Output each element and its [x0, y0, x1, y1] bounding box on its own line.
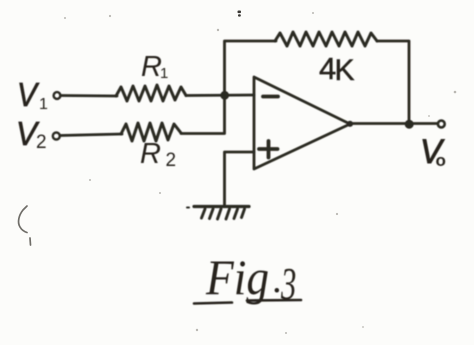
op-amp non-inverting pin label plus	[259, 141, 278, 158]
caption Fig.3	[194, 249, 301, 310]
svg-text:Fig: Fig	[205, 249, 269, 305]
svg-text:V: V	[17, 76, 40, 113]
label R2	[140, 138, 176, 171]
svg-text:2: 2	[36, 132, 47, 153]
label V2	[16, 115, 47, 153]
svg-text:K: K	[335, 54, 355, 87]
wire R1 to inverting node	[186, 94, 254, 97]
junction op-amp output apex	[347, 121, 352, 126]
wire V1 terminal to resistor R1	[61, 94, 118, 97]
wire R2 to inverting node	[181, 95, 225, 134]
node Vo output terminal	[438, 121, 445, 128]
svg-text:R: R	[141, 51, 162, 83]
wire op-amp output to terminal	[350, 122, 437, 125]
svg-text:o: o	[436, 151, 446, 170]
wire feedback right vertical to output node	[377, 41, 409, 123]
wire feedback left vertical	[225, 41, 277, 95]
label V1	[17, 76, 48, 113]
svg-text:3: 3	[280, 260, 296, 309]
scan speckles	[64, 12, 456, 334]
node V2 input terminal	[53, 133, 60, 140]
label R1	[141, 51, 168, 83]
scan artifact curl left margin	[19, 206, 31, 245]
wire V2 terminal to resistor R2	[60, 134, 122, 136]
label 4K	[319, 51, 355, 87]
resistor R1	[116, 85, 186, 101]
svg-text:1: 1	[39, 96, 48, 113]
resistor 4K feedback	[275, 32, 377, 46]
svg-text:2: 2	[166, 150, 177, 171]
label Vo	[420, 133, 446, 171]
svg-text:1: 1	[160, 65, 168, 82]
ground	[187, 207, 249, 220]
junction inverting input node	[221, 91, 229, 99]
svg-text:R: R	[140, 138, 161, 170]
junction output node	[405, 120, 413, 128]
scan artifact speck top center	[238, 11, 242, 17]
op-amp U1	[254, 77, 350, 169]
op-amp inverting pin label minus	[263, 95, 278, 99]
wire non-inverting input to ground	[225, 152, 255, 205]
resistor R2	[121, 123, 181, 141]
node V1 input terminal	[54, 92, 61, 99]
